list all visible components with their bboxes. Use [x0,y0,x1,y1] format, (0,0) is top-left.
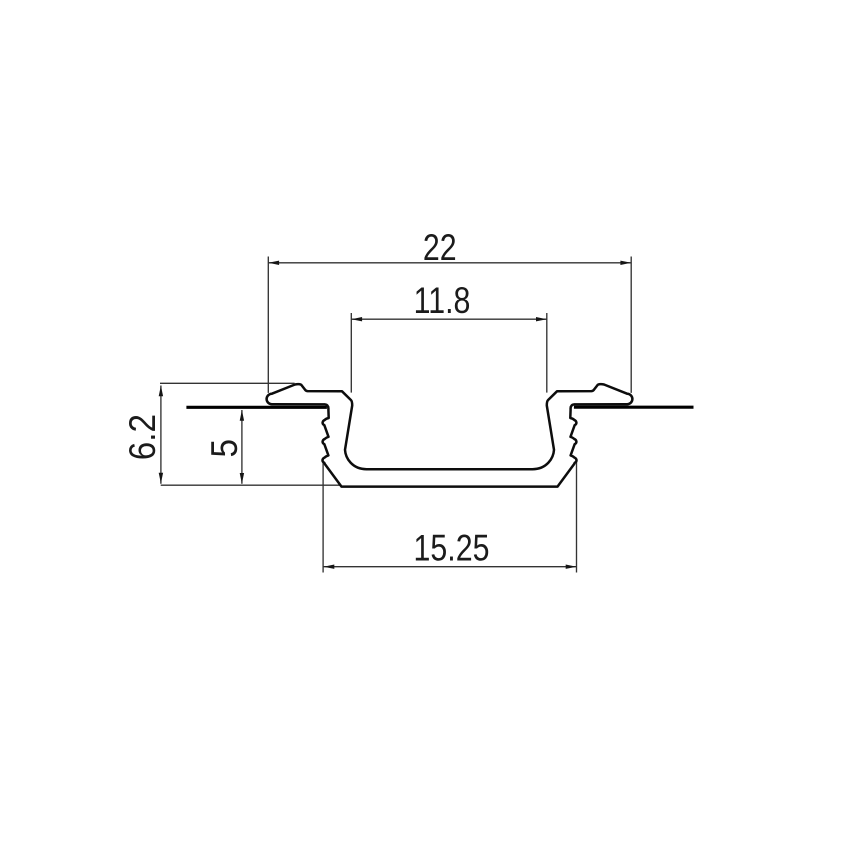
svg-text:22: 22 [423,227,457,269]
svg-text:5: 5 [204,439,245,458]
svg-text:15.25: 15.25 [414,527,490,569]
svg-text:11.8: 11.8 [414,280,471,322]
svg-text:6.2: 6.2 [122,414,163,460]
